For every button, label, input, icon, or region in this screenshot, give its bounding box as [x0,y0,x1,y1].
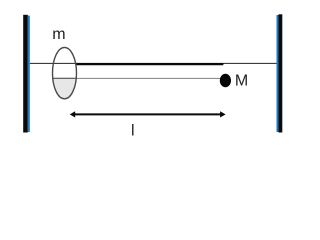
svg-text:M: M [235,73,248,90]
wire: string from left wall through tube to right wall [30,62,277,64]
wire: thick rod from tube to above M [76,63,223,65]
tube outline on top [53,47,77,98]
svg-text:m: m [52,26,65,43]
wire: lower gray line from tube to mass M [53,77,221,79]
svg-text:l: l [131,123,135,140]
tube m (ellipse) [51,47,78,100]
dimension arrow l (double headed) [70,111,226,117]
right wall [277,14,283,132]
left wall [23,15,30,133]
mass M (dot) [220,74,231,88]
